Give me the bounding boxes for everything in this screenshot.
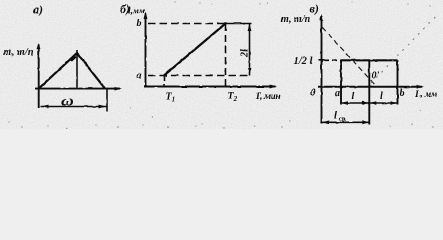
svg-text:l: l — [352, 91, 355, 102]
rectangle distribution: top edge — [341, 59, 398, 61]
dashed diagonal left — [322, 27, 377, 87]
svg-text:в): в) — [310, 2, 319, 16]
rectangle center line 0' — [368, 60, 370, 124]
l_cp dimension line — [322, 121, 369, 123]
ω dimension arrow line — [41, 106, 107, 108]
dashed vertical at T2 — [225, 24, 227, 87]
panel c x-axis — [318, 86, 422, 88]
2l dimension vertical arrow — [249, 24, 251, 76]
rectangle left edge — [340, 60, 342, 104]
panel b y-axis — [145, 14, 147, 87]
right extension line for ω dimension — [106, 89, 108, 111]
svg-text:a: a — [137, 71, 142, 82]
dashed vertical at T1 — [163, 76, 165, 87]
median line of triangle — [76, 50, 78, 89]
svg-text:L, мм: L, мм — [414, 90, 438, 100]
svg-text:a: a — [335, 88, 340, 99]
scan grain overlay — [0, 0, 443, 129]
dashed level line b — [148, 23, 224, 25]
svg-text:b: b — [400, 88, 405, 99]
solid extension of level b to dimension line — [224, 23, 252, 25]
dashed level line a — [148, 75, 252, 77]
svg-text:b: b — [137, 18, 142, 29]
svg-text:т, т/п: т, т/п — [281, 14, 311, 25]
dashed diagonal right (faint) — [371, 16, 436, 83]
svg-text:2l: 2l — [240, 49, 251, 58]
svg-text:т, т/п: т, т/п — [3, 47, 34, 58]
panel b x-axis — [144, 86, 276, 88]
l dimension line right segment — [369, 102, 397, 104]
panel a x-axis — [35, 88, 120, 90]
l dimension line left segment — [341, 102, 369, 104]
rectangle right edge — [397, 60, 399, 104]
dashed from axis to rectangle top — [324, 59, 341, 61]
ink blob on left slope — [70, 56, 77, 62]
svg-text:0': 0' — [372, 71, 380, 82]
scan speckles — [8, 1, 433, 128]
svg-text:0: 0 — [311, 88, 316, 99]
svg-text:l,мм: l,мм — [128, 6, 145, 17]
svg-text:а): а) — [33, 3, 43, 17]
tick on axis at 1/2l — [319, 59, 325, 61]
wear growth diagonal — [164, 24, 226, 76]
svg-text:ω: ω — [61, 94, 74, 109]
svg-text:l: l — [380, 91, 383, 102]
paper background — [0, 0, 443, 129]
panel c y-axis — [321, 16, 323, 124]
panel a y-axis — [38, 44, 40, 108]
svg-text:1/2 l: 1/2 l — [294, 56, 313, 67]
triangle distribution curve — [39, 53, 105, 89]
svg-text:Т, мин: Т, мин — [255, 92, 280, 102]
